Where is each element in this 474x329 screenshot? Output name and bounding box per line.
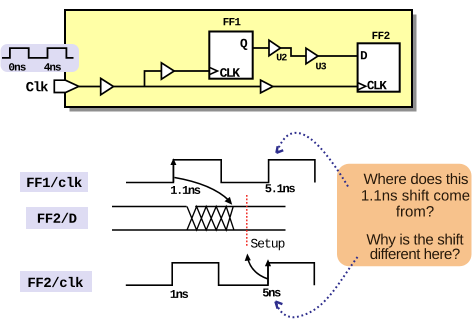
wire FF1 Q to U2 xyxy=(253,47,269,49)
label box FF1/clk xyxy=(20,172,88,192)
label 4ns xyxy=(44,63,61,70)
label U3 xyxy=(316,63,326,70)
dotted arrow to 5.1ns edge xyxy=(278,133,349,187)
label FF1 xyxy=(224,18,241,25)
flip-flop FF2 xyxy=(358,43,400,91)
arrow 5ns edge to Setup xyxy=(248,258,268,279)
label U2 xyxy=(277,54,287,61)
bubble text line 4 xyxy=(367,234,464,248)
label 1ns xyxy=(171,290,189,298)
buffer U3 xyxy=(306,48,318,64)
label FF2/clk xyxy=(29,277,84,287)
flip-flop FF1 xyxy=(209,32,252,79)
waveform FF2/D top rail xyxy=(112,206,286,208)
label FF2/D xyxy=(38,213,77,223)
arrow at 5ns rising edge xyxy=(267,265,269,285)
label 1.1ns xyxy=(171,186,200,194)
FF2/D transition hatch xyxy=(187,207,234,231)
input port symbol xyxy=(54,80,79,92)
port label Clk xyxy=(26,81,48,91)
schematic panel xyxy=(65,10,412,107)
FF2 CLK label xyxy=(367,81,386,90)
wire branch to B2 xyxy=(145,71,162,87)
speech bubble xyxy=(337,164,472,266)
red setup reference line xyxy=(246,195,248,246)
bubble text line 2 xyxy=(362,190,469,201)
label 5ns xyxy=(263,289,281,297)
bubble text line 3 xyxy=(396,206,434,217)
FF1 clock input symbol xyxy=(209,67,217,74)
schematic panel shadow xyxy=(70,15,417,112)
buffer B3 xyxy=(261,80,273,93)
FF2 pin D label xyxy=(361,51,367,59)
buffer B1 xyxy=(101,78,114,94)
label box FF2/clk xyxy=(20,271,92,292)
dotted arrow to 5ns edge xyxy=(277,257,358,317)
bubble text line 1 xyxy=(364,173,468,184)
wire port to buffer B1 xyxy=(79,86,101,88)
label box FF2/D xyxy=(26,207,88,229)
wire U3 to FF2 D xyxy=(318,55,358,57)
label Setup xyxy=(251,239,285,250)
buffer B2 xyxy=(161,63,174,79)
clock info box xyxy=(1,44,80,72)
FF1 pin Q label xyxy=(240,39,247,50)
wire B2 to FF1 CLK xyxy=(174,70,209,72)
buffer U2 xyxy=(269,40,281,56)
waveform FF2/clk xyxy=(126,263,314,285)
bubble text line 5 xyxy=(370,248,459,259)
clock waveform icon xyxy=(2,48,74,58)
label FF1/clk xyxy=(27,177,82,187)
label 5.1ns xyxy=(265,184,295,192)
wire clock rail xyxy=(114,86,261,88)
arrow at 1.1ns rising edge xyxy=(172,162,174,182)
wire U2 to U3 xyxy=(281,48,307,56)
waveform FF2/D bottom rail xyxy=(112,229,286,231)
label 0ns xyxy=(9,63,26,71)
waveform FF1/clk xyxy=(126,160,315,183)
arc from 1.1ns edge to FF2/D transition xyxy=(175,178,230,201)
FF2 clock input symbol xyxy=(358,83,366,90)
FF1 CLK label xyxy=(220,68,240,77)
wire B3 to FF2 CLK xyxy=(273,86,358,88)
label FF2 xyxy=(373,32,390,39)
